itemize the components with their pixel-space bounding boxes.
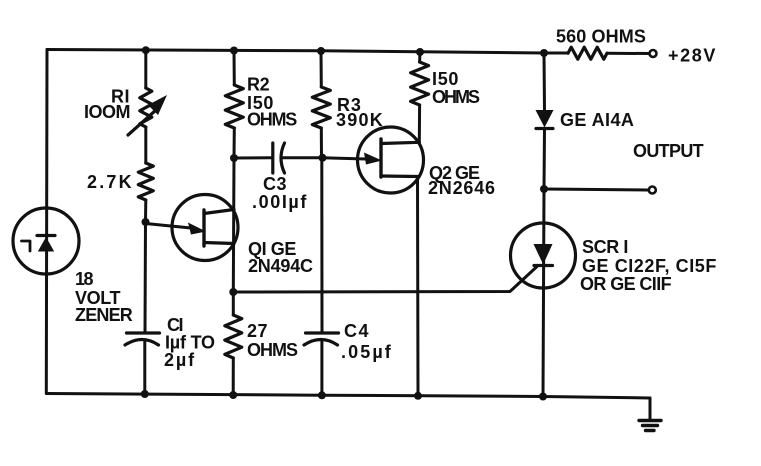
capacitor C3 .001uf xyxy=(234,143,322,173)
svg-text:SCR I: SCR I xyxy=(582,237,628,257)
wire Q2 base1 to bottom rail xyxy=(416,177,420,396)
wire C4 to bottom rail xyxy=(320,340,323,395)
label Q1 GE 2N494C xyxy=(248,239,313,276)
label R3 390K xyxy=(336,95,384,130)
wire Q1 emitter xyxy=(146,224,192,229)
label 27 OHMS xyxy=(247,321,298,360)
svg-text:2.7K: 2.7K xyxy=(87,172,134,192)
svg-text:.05µf: .05µf xyxy=(341,342,393,362)
ground xyxy=(639,398,661,431)
label 18 VOLT ZENER xyxy=(75,269,133,325)
resistor R2 150 ohms xyxy=(225,85,243,128)
transistor Q1 GE 2N494C unijunction xyxy=(172,195,238,261)
zener diode D1 18V xyxy=(13,208,79,274)
svg-text:IOOM: IOOM xyxy=(84,102,130,122)
svg-text:OHMS: OHMS xyxy=(432,87,480,107)
svg-text:390K: 390K xyxy=(336,110,384,130)
wire R3 column top xyxy=(320,51,323,87)
capacitor C4 .05uf xyxy=(304,333,339,345)
wire bottom rail xyxy=(47,394,651,399)
transistor Q2 GE 2N2646 unijunction xyxy=(358,127,424,193)
label OUTPUT xyxy=(633,141,704,161)
wire top rail xyxy=(47,50,568,54)
wire node B down past Q1 bases xyxy=(232,158,236,292)
label +28V xyxy=(668,46,717,66)
wire left column xyxy=(45,50,49,394)
svg-text:OUTPUT: OUTPUT xyxy=(633,141,704,161)
wire emitter node to C1 xyxy=(144,222,148,333)
svg-text:27: 27 xyxy=(247,321,268,341)
capacitor C1 xyxy=(125,333,160,345)
resistor R1 100M potentiometer xyxy=(128,88,167,135)
svg-text:GE AI4A: GE AI4A xyxy=(560,110,634,130)
label R2 150 OHMS xyxy=(247,75,297,130)
SCR1 GE C122F xyxy=(511,223,576,288)
label 2.7K xyxy=(87,172,134,192)
svg-text:2µf: 2µf xyxy=(164,350,196,370)
svg-text:OHMS: OHMS xyxy=(247,340,298,360)
svg-text:+28V: +28V xyxy=(668,46,717,66)
terminal +28V xyxy=(650,50,657,57)
svg-text:OR GE CIIF: OR GE CIIF xyxy=(580,274,672,294)
label C3 .001uf xyxy=(252,174,308,212)
resistor R3 390K xyxy=(312,87,330,128)
svg-text:C4: C4 xyxy=(344,321,370,341)
resistor 2.7K xyxy=(138,163,153,200)
wire node C down to C4 xyxy=(320,158,323,333)
label 560 OHMS xyxy=(556,27,646,47)
svg-text:C3: C3 xyxy=(263,174,287,194)
resistor 560 OHMS xyxy=(568,47,607,59)
wire Q2 emitter xyxy=(322,158,367,159)
label 150 OHMS right xyxy=(432,69,480,107)
wire R1 column top xyxy=(144,50,147,88)
svg-text:ZENER: ZENER xyxy=(75,305,133,325)
label C4 .05uf xyxy=(341,321,393,362)
wire R2 column top xyxy=(233,51,236,86)
wire SCR gate line xyxy=(233,267,537,293)
svg-text:560 OHMS: 560 OHMS xyxy=(556,27,646,47)
svg-text:I50: I50 xyxy=(432,69,459,89)
svg-text:GE CI22F, CI5F: GE CI22F, CI5F xyxy=(582,256,717,276)
svg-text:18: 18 xyxy=(75,269,94,289)
terminal OUTPUT xyxy=(649,187,656,194)
wire diode column top xyxy=(543,53,547,111)
wire R2 to node B xyxy=(233,128,236,158)
svg-text:OHMS: OHMS xyxy=(247,110,297,130)
wire output line xyxy=(544,189,649,190)
wire 150 ohm column top xyxy=(418,52,421,62)
label C1 1uf TO 2uf xyxy=(164,315,215,370)
svg-text:2N2646: 2N2646 xyxy=(428,178,496,198)
label SCR1 xyxy=(580,237,717,294)
wire gate node to 27 ohms xyxy=(232,292,235,315)
wire top rail right segment xyxy=(607,52,649,55)
wire between R1 and 2.7K xyxy=(144,127,147,163)
wire 150 ohm to Q2 base2 xyxy=(418,105,421,142)
label GE A14A xyxy=(560,110,634,130)
label R1 100M xyxy=(84,87,130,123)
wire diode to output node xyxy=(543,129,547,190)
diode GE A14A xyxy=(536,110,554,129)
label Q2 GE 2N2646 xyxy=(428,163,496,198)
wire 27 ohms to bottom rail xyxy=(232,358,235,395)
wire R3 to node C xyxy=(320,128,323,158)
svg-text:.00Iµf: .00Iµf xyxy=(252,192,308,212)
wire output node to SCR and bottom rail xyxy=(543,189,544,397)
resistor 27 OHMS xyxy=(225,315,242,358)
svg-text:2N494C: 2N494C xyxy=(248,256,313,276)
svg-text:R2: R2 xyxy=(247,75,270,95)
wire C1 to bottom rail xyxy=(143,340,146,394)
wire 2.7K to emitter node xyxy=(144,200,147,222)
resistor 150 OHMS right xyxy=(411,62,429,105)
